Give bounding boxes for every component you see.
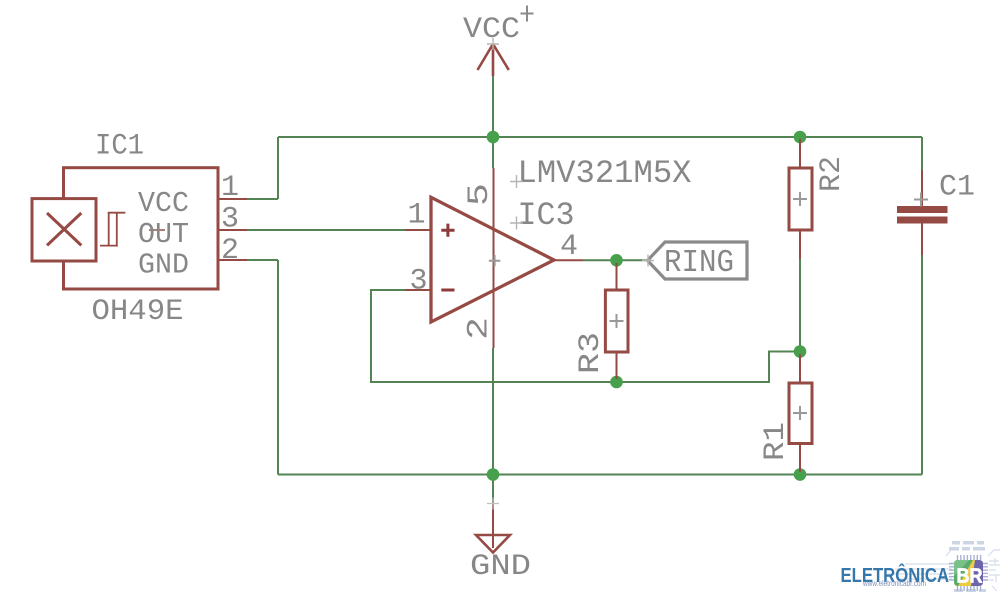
watermark circuit doodles bbox=[887, 549, 1000, 591]
svg-text:3: 3 bbox=[410, 265, 428, 299]
svg-text:R2: R2 bbox=[815, 156, 849, 192]
IC1 X cross bbox=[47, 213, 81, 245]
svg-text:www.eletronicabr.com: www.eletronicabr.com bbox=[862, 578, 926, 588]
wire IC1 pin3 to op-amp +in bbox=[247, 229, 405, 231]
op-amp center cross bbox=[489, 255, 500, 266]
watermark chip body (yellow base) bbox=[954, 560, 983, 586]
svg-text:GND: GND bbox=[138, 249, 189, 282]
op-amp power pin line (5 top, 2 bottom) bbox=[493, 168, 495, 348]
GND symbol drop line bbox=[492, 503, 494, 548]
junction dot GND/op-amp bbox=[487, 468, 500, 481]
watermark chip green section bbox=[954, 560, 973, 586]
capacitor C1 pins bbox=[921, 170, 923, 255]
svg-text:3: 3 bbox=[221, 203, 239, 237]
capacitor C1 bottom plate bbox=[897, 217, 948, 224]
op-amp -in stub bbox=[405, 289, 431, 291]
resistor R2 center cross bbox=[793, 192, 807, 206]
wire R2 bottom to node bbox=[799, 255, 801, 352]
svg-text:RING: RING bbox=[664, 246, 734, 281]
junction dot VCC/op-amp bbox=[487, 131, 500, 144]
VCC plus sign bbox=[521, 6, 534, 22]
VCC supply arrow bbox=[478, 44, 509, 76]
resistor R2 body bbox=[789, 168, 812, 230]
wire op-amp pin2 down to GND rail bbox=[492, 348, 494, 503]
svg-text:1: 1 bbox=[221, 171, 239, 205]
capacitor C1 cross bbox=[914, 193, 928, 207]
RING origin cross bbox=[642, 255, 654, 267]
svg-text:BR: BR bbox=[957, 565, 983, 588]
resistor R2 pins bbox=[799, 139, 801, 259]
svg-text:4: 4 bbox=[560, 230, 578, 264]
resistor R1 center cross bbox=[793, 406, 807, 420]
watermark faint tag marks above and below chip bbox=[949, 541, 986, 592]
junction dot R3 bottom/feedback bbox=[610, 376, 623, 389]
svg-text:R3: R3 bbox=[574, 332, 608, 374]
svg-text:OH49E: OH49E bbox=[92, 295, 184, 329]
svg-text:1: 1 bbox=[408, 199, 426, 233]
IC1 OUT strike line bbox=[149, 229, 165, 231]
wire C1 to bottom rail bbox=[921, 255, 923, 475]
op-amp minus input mark bbox=[441, 289, 454, 292]
wire GND left vertical bbox=[277, 260, 279, 475]
op-amp +in stub bbox=[405, 229, 431, 231]
junction dot R2/R1/feedback bbox=[794, 345, 807, 358]
svg-text:5: 5 bbox=[463, 183, 497, 206]
capacitor C1 top plate bbox=[897, 206, 948, 213]
junction dot GND/R1 bbox=[794, 468, 807, 481]
watermark chip green highlight bbox=[954, 560, 969, 576]
IC1 pin 1 stub bbox=[218, 198, 247, 200]
svg-text:GND: GND bbox=[470, 550, 531, 584]
IC1 hysteresis symbol bbox=[100, 213, 125, 247]
junction dot output/R3 bbox=[610, 254, 623, 267]
resistor R1 pins bbox=[799, 354, 801, 472]
wire VCC vertical upper bbox=[492, 76, 494, 168]
wire IC1 pin1 net bbox=[247, 198, 278, 200]
op-amp plus input mark bbox=[441, 224, 454, 237]
svg-text:2: 2 bbox=[463, 317, 497, 340]
wire IC1 pin1 vertical to top rail bbox=[277, 137, 279, 199]
svg-text:C1: C1 bbox=[939, 171, 975, 205]
junction dot VCC/R2 bbox=[794, 131, 807, 144]
svg-text:OUT: OUT bbox=[138, 218, 189, 251]
IC1 pin 3 stub bbox=[218, 229, 247, 231]
wire IC1 pin2 net bbox=[247, 259, 278, 261]
watermark chip pins bbox=[949, 555, 988, 591]
svg-text:IC3: IC3 bbox=[518, 197, 575, 234]
wire GND bottom rail bbox=[278, 474, 922, 476]
IC1 body box bbox=[64, 168, 219, 289]
svg-text:R1: R1 bbox=[759, 422, 793, 461]
op-amp U/IC3 triangle bbox=[431, 197, 554, 322]
op-amp origin cross IC3 bbox=[510, 217, 523, 230]
wire top rail to C1 bbox=[921, 137, 923, 170]
wire VCC top rail bbox=[278, 136, 922, 138]
IC1 hall element X-box bbox=[32, 199, 96, 261]
svg-text:2: 2 bbox=[221, 234, 239, 268]
op-amp origin cross LMV bbox=[510, 175, 523, 188]
svg-text:VCC: VCC bbox=[138, 187, 189, 220]
GND symbol triangle bbox=[476, 535, 510, 553]
resistor R3 pins bbox=[616, 263, 618, 379]
resistor R3 body bbox=[605, 290, 628, 352]
VCC origin cross bbox=[487, 38, 499, 50]
watermark chip purple section bbox=[971, 560, 983, 586]
wire op-amp output to RING bbox=[583, 259, 648, 261]
wire feedback loop from -in to R1/R2 node bbox=[371, 290, 800, 382]
GND origin cross bbox=[487, 498, 499, 510]
resistor R3 center cross bbox=[610, 314, 624, 328]
op-amp output stub bbox=[554, 259, 583, 261]
resistor R1 body bbox=[789, 383, 812, 444]
RING net flag bbox=[648, 242, 748, 279]
IC1 pin 2 stub bbox=[218, 259, 247, 261]
svg-text:LMV321M5X: LMV321M5X bbox=[518, 155, 692, 192]
svg-text:VCC: VCC bbox=[463, 13, 520, 47]
svg-text:IC1: IC1 bbox=[95, 130, 144, 164]
